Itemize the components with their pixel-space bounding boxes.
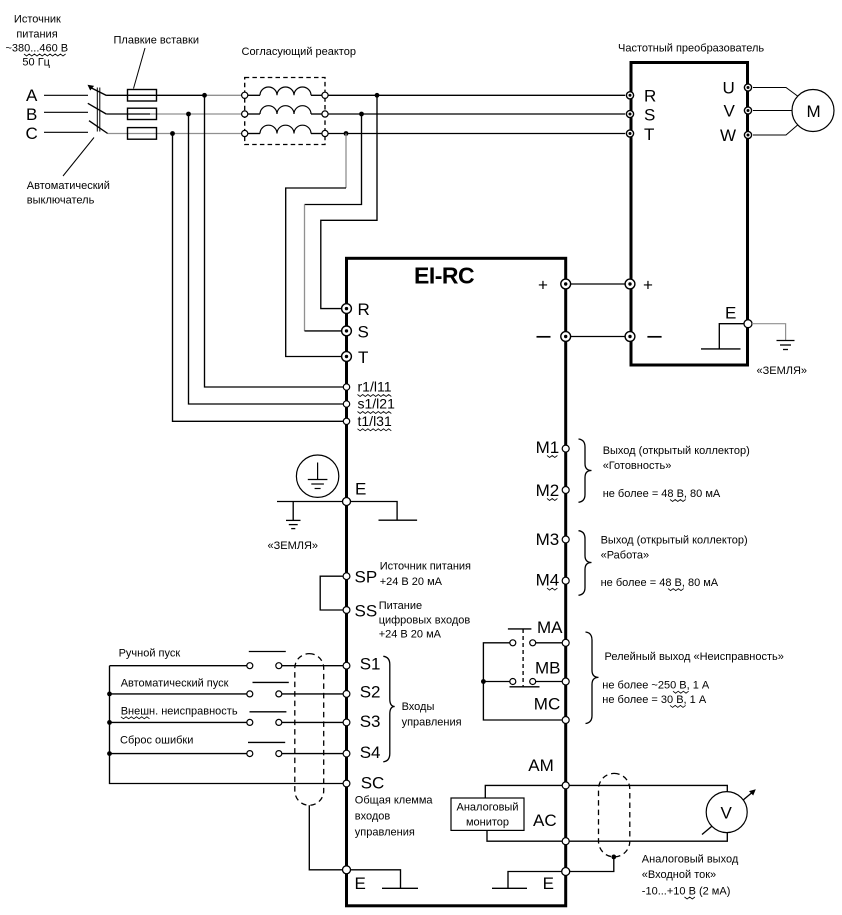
svg-text:M4: M4 [536, 571, 560, 590]
label: Аналоговый выход «Входной ток» -10...+10 В (2 мА) [642, 854, 739, 898]
svg-text:Выход (открытый коллектор): Выход (открытый коллектор) [601, 534, 748, 546]
squiggle under 380...460 В [24, 54, 66, 56]
EI-RC terminal M2 [562, 487, 569, 494]
converter terminal + [625, 279, 635, 289]
EI-RC terminal MC [562, 717, 569, 724]
svg-text:t1/l31: t1/l31 [358, 413, 392, 429]
internal chassis ground at bottom-right E [492, 872, 562, 889]
svg-text:R: R [644, 87, 656, 106]
svg-text:«ЗЕМЛЯ»: «ЗЕМЛЯ» [757, 365, 808, 377]
svg-text:+: + [538, 276, 548, 295]
svg-text:Питание: Питание [379, 600, 422, 612]
svg-text:«ЗЕМЛЯ»: «ЗЕМЛЯ» [268, 540, 319, 552]
EI-RC terminal S4 [343, 750, 350, 757]
label: Питание цифровых входов +24 В 20 мА [379, 600, 471, 641]
svg-text:Аналоговый выход: Аналоговый выход [642, 854, 739, 866]
junction bus-S2 [107, 692, 112, 697]
shielded cable oval (control inputs) [295, 654, 324, 806]
wire relay bus to MB contact [483, 681, 509, 683]
junction on C for T tap [344, 131, 349, 136]
EI-RC terminal SC [343, 780, 350, 787]
svg-text:не более = 48 В, 80 мА: не более = 48 В, 80 мА [603, 488, 721, 500]
voltmeter PV1 circle [706, 792, 747, 833]
svg-text:+24 В 20 мА: +24 В 20 мА [380, 576, 443, 588]
svg-text:входов: входов [355, 811, 391, 823]
fuse FU3 (phase C) [128, 128, 157, 140]
svg-text:MB: MB [535, 659, 561, 678]
pin label s1/l21 with squiggle [358, 396, 396, 414]
label: Аналоговый монитор [457, 802, 519, 829]
fuse FU1 (phase A) [128, 90, 157, 102]
shielded cable oval (analog output) [599, 773, 630, 857]
junction on A for R tap [375, 93, 380, 98]
wire phase A incoming stub [44, 94, 88, 96]
svg-text:Внешн. неисправность: Внешн. неисправность [121, 706, 238, 718]
wire W to motor [753, 125, 798, 136]
svg-text:+24 В 20 мА: +24 В 20 мА [379, 629, 442, 641]
relay contact K1.1 (MA row) circles and blade [508, 629, 536, 646]
wire phase B from breaker to reactor [106, 113, 242, 115]
svg-text:W: W [720, 126, 736, 145]
frequency converter U1 enclosure [631, 63, 748, 366]
svg-text:«Входной ток»: «Входной ток» [642, 869, 716, 881]
label: Выход (открытый коллектор) «Готовность» [603, 445, 750, 472]
svg-text:AC: AC [533, 811, 557, 830]
junction on B for S tap [359, 112, 364, 117]
svg-text:не более = 30 В, 1 А: не более = 30 В, 1 А [602, 694, 707, 706]
svg-text:управления: управления [355, 827, 415, 839]
EI-RC terminal S1 [343, 662, 350, 669]
svg-text:r1/l11: r1/l11 [358, 379, 392, 395]
svg-text:«Готовность»: «Готовность» [603, 460, 672, 472]
EI-RC terminal AC [562, 838, 569, 845]
EI-RC terminal SP [343, 573, 350, 580]
brace for M1-M2 group [579, 439, 592, 502]
label: Автоматический выключатель [27, 180, 110, 207]
wire tap C down to EI-RC T (staircase, gray upper leg) [286, 134, 346, 357]
svg-text:EI-RC: EI-RC [414, 263, 474, 289]
label: Выход (открытый коллектор) «Работа» [601, 534, 748, 561]
EI-RC terminal SS [343, 607, 350, 614]
svg-text:В: В [26, 105, 37, 124]
EI-RC terminal R [342, 304, 352, 314]
wire tap A down to r1/l11 [205, 95, 344, 387]
svg-text:«Работа»: «Работа» [601, 550, 650, 562]
svg-text:AM: AM [528, 756, 554, 775]
converter terminal T [626, 130, 633, 137]
wire phase B incoming stub [44, 111, 88, 113]
svg-text:MC: MC [534, 695, 560, 714]
EI-RC terminal S [342, 326, 352, 336]
svg-text:Автоматический пуск: Автоматический пуск [121, 678, 229, 690]
callout line to fuse A [134, 48, 146, 89]
EI-RC terminal T [342, 352, 352, 362]
label: Источник питания +24 В 20 мА [380, 561, 471, 589]
label: Входы управления [402, 701, 462, 729]
pin label minus (converter) [647, 336, 661, 338]
svg-text:Сброс ошибки: Сброс ошибки [120, 735, 193, 747]
internal chassis ground at E (right inside) [351, 502, 418, 521]
svg-text:M: M [807, 102, 821, 121]
svg-text:не более = 48 В, 80 мА: не более = 48 В, 80 мА [601, 577, 719, 589]
switch SB3 (Внешн. неисправность) to S3 [110, 712, 344, 726]
svg-text:Входы: Входы [402, 701, 435, 713]
svg-text:MA: MA [537, 618, 563, 637]
converter terminal minus [625, 332, 635, 342]
wire common bus of relay contacts to MC [483, 643, 562, 720]
label: power source "Источник питания ~380...460 В 50 Гц" [5, 14, 68, 69]
svg-text:-10...+10 В (2 мА): -10...+10 В (2 мА) [642, 886, 731, 898]
svg-text:+: + [643, 276, 653, 295]
pin label M2 with squiggle [536, 481, 560, 501]
svg-text:С: С [26, 124, 38, 143]
wire tap B down to EI-RC S (staircase, gray lower leg) [305, 114, 362, 331]
wire MB contact to MB terminal [536, 681, 563, 683]
converter terminal E [744, 320, 752, 328]
EI-RC terminal S2 [343, 691, 350, 698]
squiggle under +10 В [685, 897, 695, 899]
brace for S1-S4 group [383, 656, 394, 762]
switch SB2 (Автоматический пуск) to S2 [110, 682, 344, 697]
svg-text:M3: M3 [536, 530, 560, 549]
EI-RC terminal + [561, 279, 571, 289]
EI-RC terminal M1 [562, 445, 569, 452]
left bus wire of switches [110, 666, 344, 784]
circuit breaker QF1 mechanical linkage (double bar) [97, 88, 100, 132]
svg-text:S3: S3 [360, 712, 381, 731]
wire phase A reactor to converter R [328, 94, 625, 96]
EI-RC terminal E (bottom left) [343, 866, 351, 874]
shield drain junction dot [611, 855, 616, 860]
pin label minus (EI-RC) [537, 336, 551, 338]
wire tap B down to s1/l21 [189, 114, 344, 404]
svg-text:Источник питания: Источник питания [380, 561, 471, 573]
svg-text:S2: S2 [360, 682, 381, 701]
wire phase C incoming stub [44, 131, 88, 133]
earth ground symbol (converter) [777, 341, 795, 350]
svg-text:S4: S4 [360, 743, 381, 762]
svg-text:S: S [358, 323, 369, 342]
relay mechanical link (dashed) [522, 629, 524, 687]
svg-text:T: T [644, 125, 654, 144]
protective earth symbol in circle [296, 455, 338, 497]
svg-text:Общая клемма: Общая клемма [355, 795, 434, 807]
wire phase B reactor to converter S [328, 113, 625, 115]
svg-text:V: V [721, 803, 733, 822]
earth ground symbol (EI-RC E) [286, 520, 301, 528]
EI-RC terminal AM [562, 782, 569, 789]
svg-text:E: E [725, 304, 736, 323]
converter terminal V [744, 107, 751, 114]
fuse FU2 (phase B) [128, 108, 157, 119]
svg-text:s1/l21: s1/l21 [358, 396, 396, 412]
svg-text:питания: питания [16, 29, 57, 41]
EI-RC terminal E (bottom right) [562, 868, 570, 876]
svg-text:50 Гц: 50 Гц [22, 57, 50, 69]
matching reactor L1 dashed enclosure [245, 78, 325, 145]
svg-text:выключатель: выключатель [27, 195, 95, 207]
wire E to earth (left) [277, 502, 343, 521]
shield drain wire to E (right) [569, 857, 614, 872]
svg-text:S1: S1 [360, 655, 381, 674]
label: не более = 48 В, 80 мА (M3-M4) with squiggle [601, 577, 719, 591]
label: не более = 30 В, 1 А with squiggle [602, 694, 707, 708]
svg-text:не более ~250 В, 1 А: не более ~250 В, 1 А [602, 680, 710, 692]
svg-text:Плавкие вставки: Плавкие вставки [114, 35, 199, 47]
EI-RC terminal MB [562, 678, 569, 685]
EI-RC terminal r1/l11 [343, 384, 349, 390]
label: Общая клемма входов управления [355, 795, 434, 839]
EI-RC enclosure [347, 258, 566, 906]
svg-text:Выход (открытый коллектор): Выход (открытый коллектор) [603, 445, 750, 457]
svg-text:~380...460 В: ~380...460 В [5, 43, 68, 55]
brace for MA-MC group [586, 632, 599, 724]
circuit breaker QF1 pole B blade [88, 103, 106, 114]
svg-text:Ручной пуск: Ручной пуск [119, 648, 181, 660]
label: не более ~250 В, 1 А with squiggle [602, 680, 710, 694]
svg-text:M2: M2 [536, 481, 560, 500]
junction bus-S3 [107, 720, 112, 725]
reactor coil C terminals and winding [242, 125, 329, 136]
brace for M3-M4 group [579, 531, 592, 596]
wire phase A from breaker to reactor [107, 94, 242, 96]
wire phase C reactor to converter T [328, 133, 625, 135]
wire DC bus + between EI-RC and converter [571, 283, 626, 285]
svg-text:S: S [644, 106, 655, 125]
EI-RC terminal S3 [343, 719, 350, 726]
wire MA contact to MA terminal [536, 642, 563, 644]
wire AM to analog monitor [485, 785, 562, 798]
converter terminal U [744, 84, 751, 91]
internal chassis ground at bottom-left E [351, 870, 419, 889]
converter terminal S [626, 110, 633, 117]
converter terminal W [744, 131, 751, 138]
pin label t1/l31 with squiggle [358, 413, 392, 431]
EI-RC terminal MA [562, 639, 569, 646]
shield drain wire to E [309, 805, 342, 870]
wire U to motor [753, 88, 798, 97]
wire analog monitor to AC [487, 830, 562, 841]
callout line to breaker label [63, 138, 94, 177]
EI-RC terminal E (left) [343, 498, 351, 506]
wire AC to voltmeter [569, 833, 727, 842]
svg-text:V: V [724, 102, 736, 121]
svg-text:E: E [355, 480, 366, 499]
svg-text:управления: управления [402, 716, 462, 728]
wire AM to voltmeter [569, 785, 727, 791]
voltmeter needle with arrowhead [702, 789, 756, 834]
wire V to motor [753, 110, 792, 112]
EI-RC terminal minus [561, 332, 571, 342]
jumper wire SP-SS [320, 576, 343, 610]
svg-text:SC: SC [361, 774, 385, 793]
circuit breaker QF1 pole A blade with trip arrow [88, 85, 107, 96]
wire phase C from breaker to reactor [108, 133, 242, 135]
wire converter E to earth (gray) [752, 324, 786, 341]
motor M1 circle [792, 90, 834, 132]
EI-RC terminal M4 [562, 577, 569, 584]
switch SB4 (Сброс ошибки) to S4 [110, 742, 344, 756]
svg-text:E: E [355, 874, 366, 893]
wire tap A down to EI-RC R (staircase) [321, 95, 377, 308]
junction relay bus MB row [481, 679, 486, 684]
wire DC bus minus between EI-RC and converter [571, 336, 626, 338]
reactor coil A terminals and winding [242, 87, 329, 98]
label: Внешн. неисправность with squiggle [121, 706, 238, 719]
svg-text:U: U [723, 79, 735, 98]
svg-text:M1: M1 [536, 438, 560, 457]
label: не более = 48 В, 80 мА (M1-M2) with squiggle [603, 488, 721, 502]
analog monitor box [451, 798, 524, 830]
junction on C for t1/l31 tap [170, 131, 175, 136]
svg-text:SS: SS [355, 602, 378, 621]
reactor coil B terminals and winding [242, 106, 329, 117]
converter terminal R [626, 92, 633, 99]
EI-RC terminal t1/l31 [343, 418, 349, 424]
switch SB1 (Ручной пуск) to S1 [110, 652, 344, 669]
svg-text:Источник: Источник [14, 14, 61, 26]
EI-RC terminal M3 [562, 536, 569, 543]
svg-text:А: А [26, 86, 38, 105]
junction on A for r1/l11 tap [202, 93, 207, 98]
svg-text:SP: SP [355, 568, 378, 587]
svg-text:Релейный выход «Неисправность»: Релейный выход «Неисправность» [605, 651, 784, 663]
junction on B for s1/l21 tap [186, 112, 191, 117]
svg-text:цифровых входов: цифровых входов [379, 615, 471, 627]
svg-text:E: E [543, 874, 554, 893]
circuit breaker QF1 pole C blade [89, 121, 108, 134]
pin label M4 with squiggle [536, 571, 560, 591]
wire tap C down to t1/l31 [173, 134, 344, 422]
junction bus-S4 [107, 751, 112, 756]
relay contact K1.2 (MB row) circles and blade below [510, 679, 540, 687]
converter internal chassis ground symbol [701, 324, 744, 349]
pin label M1 with squiggle [536, 438, 560, 458]
svg-text:Аналоговый: Аналоговый [457, 802, 519, 814]
EI-RC terminal s1/l21 [343, 401, 349, 407]
svg-text:T: T [358, 348, 368, 367]
svg-text:Частотный преобразователь: Частотный преобразователь [618, 43, 764, 55]
pin label r1/l11 with squiggle [358, 379, 392, 397]
svg-text:R: R [358, 300, 370, 319]
svg-text:монитор: монитор [466, 817, 509, 829]
svg-text:Согласующий реактор: Согласующий реактор [242, 46, 356, 58]
svg-text:Автоматический: Автоматический [27, 180, 110, 192]
